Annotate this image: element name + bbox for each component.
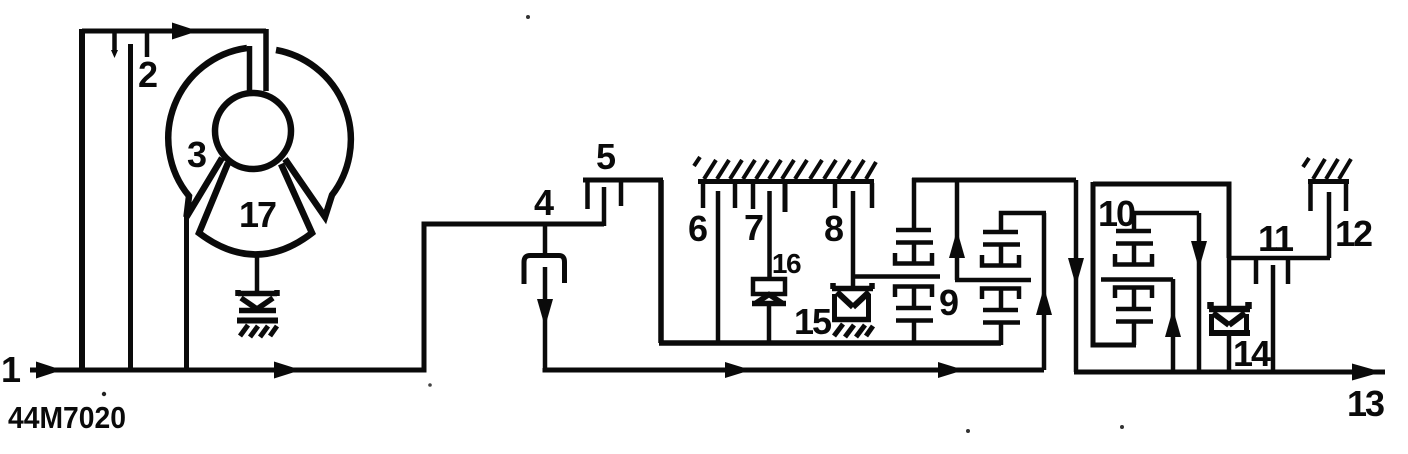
clutch C4 stub	[543, 224, 548, 255]
svg-text:6: 6	[688, 208, 708, 249]
one-way clutch 14 sprag V	[1213, 313, 1245, 325]
one-way clutch 15 box sides	[835, 294, 869, 321]
planetary 9 rear: bottom shaft to sub-bus	[999, 323, 1004, 345]
wire: 1044 to 9 rear top shaft	[1001, 213, 1046, 232]
clutch C5 bar	[583, 178, 663, 183]
brake B7 prong left	[751, 183, 756, 209]
clutch C2 prong left	[112, 33, 117, 51]
planetary 10: bottom shaft	[1132, 322, 1137, 345]
wire: 14 shaft to bus	[1227, 334, 1232, 372]
wire: 10 top shaft to down-arrow riser	[1132, 211, 1199, 216]
arrow up on carrier riser	[949, 230, 965, 258]
one-way clutch 14 top bar	[1209, 302, 1250, 309]
brake B8 prong right	[870, 183, 875, 208]
torque converter housing 3 left arc	[168, 48, 247, 217]
svg-text:16: 16	[772, 248, 801, 279]
planetary 10: stem upper	[1132, 244, 1137, 263]
arrow down on 1076 vertical	[1068, 258, 1084, 286]
planetary 9 rear: plate 1	[983, 230, 1018, 235]
planetary 9 front: plate 2	[896, 240, 933, 245]
clutch C2 prong right	[145, 33, 150, 57]
brake B6 member to sub-bus	[716, 191, 721, 343]
wire: main bus segment 3 to output	[1074, 370, 1385, 375]
output arrow 13	[1352, 364, 1382, 381]
one-way clutch 16 bottom bar	[752, 301, 786, 307]
svg-text:11: 11	[1258, 218, 1294, 259]
clutch C11 prong left	[1254, 260, 1259, 284]
clutch C5 member (from 4-line up)	[602, 187, 607, 226]
planetary 10: cup	[1115, 254, 1152, 265]
torque converter housing 3 right arc	[276, 50, 351, 217]
torque converter input shaft	[263, 29, 269, 91]
label 1 input arrow	[36, 362, 62, 379]
planetary 9 rear: cup	[982, 255, 1019, 266]
planetary 9 front: cap	[895, 287, 932, 298]
arrow up on bus riser	[1036, 287, 1052, 315]
one-way clutch under turbine: bottom bar	[237, 318, 278, 324]
arrow on bus segment 2 right	[938, 362, 964, 378]
planetary 9 front: stem upper	[912, 243, 917, 262]
planetary 9 front: top shaft from top line	[912, 178, 917, 230]
wire: main bus segment 2	[545, 368, 1044, 370]
brake B12 ground bar	[1308, 179, 1349, 184]
clutch C2 prong left tip	[111, 50, 118, 58]
planetary 9 rear: stem lower	[999, 290, 1004, 310]
clutch C5 prong left	[585, 182, 590, 209]
noise speck 5	[428, 383, 432, 387]
svg-text:12: 12	[1335, 213, 1372, 254]
wire: C5 right vertical down to sub-bus	[658, 180, 664, 343]
wire: top line over gearsets	[912, 178, 1076, 183]
svg-text:1: 1	[1, 349, 21, 390]
one-way clutch under turbine: ground hatching	[240, 325, 277, 337]
noise speck 4	[1120, 425, 1124, 429]
turbine 17 wedge	[199, 163, 312, 255]
svg-text:10: 10	[1098, 193, 1135, 234]
wire: carrier riser with up arrow to bus	[1171, 279, 1176, 372]
arrow on bus segment 2 left	[725, 362, 751, 378]
clutch C2 member (vertical to bus)	[128, 44, 133, 370]
one-way clutch 15 sprag V	[837, 292, 869, 307]
svg-text:8: 8	[824, 208, 844, 249]
planetary 10: stem lower	[1132, 289, 1137, 309]
planetary 10: plate 1	[1116, 229, 1151, 234]
planetary 9 front: stem lower	[912, 288, 917, 308]
gearset 10 box left side and bottom	[1093, 182, 1136, 345]
svg-text:7: 7	[744, 207, 764, 248]
one-way clutch 15 top bar	[832, 283, 873, 289]
svg-text:17: 17	[239, 194, 276, 235]
planetary 9 front: plate 1	[896, 228, 931, 233]
one-way clutch 16 sprag	[756, 295, 782, 304]
clutch C11 member to bus	[1271, 265, 1276, 372]
brake B12 prong right	[1344, 183, 1349, 211]
planetary 9 rear: cap	[982, 289, 1019, 300]
wire: sub-bus (input shell line)	[659, 340, 1001, 346]
one-way clutch under turbine: top bar	[238, 290, 277, 296]
brake B8 prong left	[833, 183, 838, 208]
brake B12 hatching	[1303, 158, 1351, 179]
wire: carrier riser with up arrow	[955, 178, 960, 280]
svg-text:15: 15	[794, 301, 832, 342]
wire: left vertical from top line to bus	[79, 29, 85, 370]
clutch C11 prong right	[1286, 260, 1291, 284]
svg-text:4: 4	[534, 182, 554, 223]
one-way clutch 14 box sides	[1212, 314, 1247, 333]
one-way clutch 14 bottom bar	[1209, 330, 1250, 336]
one-way clutch 15 bottom bar	[832, 317, 871, 323]
svg-text:44M7020: 44M7020	[8, 400, 126, 435]
wire: housing leg vertical to bus	[184, 215, 189, 370]
arrow on C4 member	[537, 299, 553, 327]
brake B6 prong left	[701, 183, 706, 208]
planetary 10: carrier line	[1101, 277, 1173, 282]
torque converter neck left	[247, 46, 253, 93]
wire: 16 shaft to sub-bus	[767, 306, 772, 343]
clutch C4 member with down arrow	[543, 267, 548, 370]
planetary 9 front: plate 4	[896, 318, 933, 323]
wire: 8/15 tee to planetary 9 front carrier	[853, 274, 940, 279]
arrow down on 1199 riser	[1191, 241, 1207, 269]
brake B12 prong left	[1308, 183, 1313, 211]
wire: down riser to bus	[1197, 213, 1202, 372]
wire: down vertical from top line to bus segment 3	[1074, 180, 1079, 372]
one-way clutch 16 box	[753, 279, 785, 294]
planetary 9 rear: carrier line	[955, 278, 1031, 283]
clutch C11 line from box to brake 12	[1229, 256, 1330, 261]
planetary 9 rear: stem upper	[999, 245, 1004, 264]
brake B6 prong right	[733, 183, 738, 208]
svg-text:9: 9	[939, 282, 959, 323]
noise speck 2	[526, 15, 530, 19]
svg-text:14: 14	[1233, 333, 1271, 374]
svg-text:2: 2	[138, 54, 158, 95]
planetary 9 front: bottom shaft to sub-bus	[912, 321, 917, 343]
brake B12 member	[1327, 192, 1332, 258]
wire: 14 shaft from box corner down	[1227, 256, 1232, 307]
clutch C5 prong right	[619, 182, 624, 206]
ground bar above brakes 6 7 8	[698, 179, 874, 184]
gearset 10 box top and right side	[1093, 184, 1229, 258]
noise speck 3	[966, 429, 970, 433]
planetary 9 front: plate 3	[896, 306, 931, 311]
wire: bus riser up at 1044	[1042, 213, 1047, 370]
noise speck 1	[102, 392, 106, 396]
arrow up on 1173 riser	[1165, 309, 1181, 337]
svg-text:5: 5	[596, 136, 616, 177]
wire: turbine shaft down	[255, 252, 260, 293]
brake B7 prong right	[783, 183, 788, 212]
one-way clutch under turbine: V sprag	[241, 298, 273, 309]
ground bar hatching	[694, 157, 876, 179]
brake B7 member down to one-way clutch 16	[767, 191, 772, 280]
planetary 9 rear: plate 4	[983, 320, 1020, 325]
planetary 10: top shaft	[1132, 213, 1137, 231]
clutch C4 fork	[524, 256, 565, 285]
svg-text:13: 13	[1347, 383, 1384, 424]
wire: main bus segment 1	[30, 224, 604, 370]
arrow on top line	[172, 23, 198, 40]
planetary 9 front: cup	[895, 253, 932, 264]
one-way clutch under turbine: mid bar	[239, 308, 276, 314]
brake B8 member down to one-way clutch 15	[851, 191, 856, 287]
planetary 9 rear: plate 2	[983, 242, 1020, 247]
planetary 10: cap	[1115, 288, 1152, 299]
planetary 9 rear: plate 3	[983, 308, 1018, 313]
planetary 10: plate 3	[1116, 307, 1151, 312]
planetary 10: plate 4	[1116, 319, 1153, 324]
wire: top input line	[82, 29, 266, 34]
one-way clutch 15 ground hatching	[834, 324, 873, 337]
svg-text:3: 3	[187, 134, 207, 175]
planetary 10: plate 2	[1116, 241, 1153, 246]
arrow on bus segment 1	[274, 362, 301, 379]
torque converter inner circle	[215, 93, 291, 169]
